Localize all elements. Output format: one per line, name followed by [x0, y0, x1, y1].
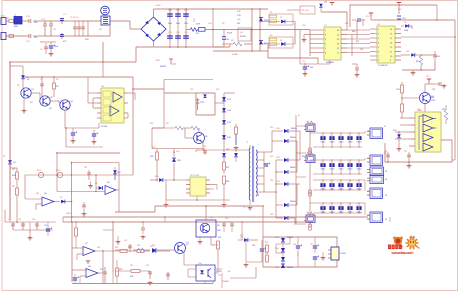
svg-text:C19: C19	[360, 49, 363, 51]
capacitor CO25	[358, 160, 360, 174]
fuse box F6	[306, 215, 315, 223]
connector J1	[1, 18, 6, 25]
capacitor C6	[78, 21, 80, 36]
capacitor C26	[387, 152, 389, 162]
svg-text:C34: C34	[32, 219, 35, 221]
wire	[300, 63, 330, 65]
capacitor CY2	[50, 21, 52, 24]
wire mid rail	[115, 249, 128, 251]
capacitor C11 bulk	[177, 9, 179, 47]
svg-text:JP1 POK: JP1 POK	[301, 10, 310, 12]
capacitor CO21	[322, 160, 324, 174]
capacitor C43	[149, 271, 151, 279]
power bar	[87, 261, 89, 264]
wire	[389, 217, 391, 222]
wire rail y77	[24, 76, 133, 78]
svg-text:D20: D20	[270, 127, 273, 129]
svg-text:1000u: 1000u	[330, 169, 335, 171]
resistor R16 R17	[175, 126, 183, 130]
capacitor CO15	[358, 133, 360, 147]
wire rail y200	[166, 199, 230, 201]
svg-text:R12: R12	[416, 61, 419, 63]
svg-text:R7: R7	[270, 12, 272, 14]
svg-text:VCC: VCC	[302, 25, 307, 27]
output row 3 rail	[313, 179, 365, 181]
svg-text:D4: D4	[95, 183, 97, 185]
choke L1	[14, 17, 22, 25]
capacitor C27	[408, 152, 410, 162]
wire	[401, 36, 455, 38]
wire	[213, 46, 224, 48]
svg-text:102: 102	[237, 23, 240, 25]
connector J2	[1, 33, 6, 40]
resistor R18	[235, 127, 238, 134]
svg-text:D3: D3	[60, 197, 62, 199]
wire	[210, 237, 212, 245]
svg-text:VCC: VCC	[366, 16, 371, 18]
diode D27	[152, 249, 156, 253]
svg-text:Q8: Q8	[240, 32, 243, 34]
diode D35	[281, 257, 285, 261]
svg-text:F3: F3	[302, 156, 304, 158]
svg-text:C43: C43	[146, 265, 149, 267]
connector JO3	[364, 180, 366, 191]
svg-text:104: 104	[310, 67, 313, 69]
diode D29B	[234, 153, 238, 157]
resistor R25	[116, 268, 119, 276]
diode D26	[284, 216, 288, 220]
op-amp U1 PWM IC	[324, 27, 341, 60]
transformer T1	[249, 148, 250, 200]
wire	[215, 272, 218, 274]
diode D23	[284, 170, 288, 174]
svg-text:C45: C45	[293, 244, 296, 246]
resistor R14	[401, 104, 404, 112]
svg-text:R29: R29	[218, 237, 221, 239]
svg-text:TL594: TL594	[101, 126, 108, 128]
capacitor C9 electrolytic	[49, 45, 53, 47]
wire blue stub	[235, 134, 237, 145]
resistor R28	[223, 176, 226, 184]
power +V2	[370, 13, 372, 16]
capacitor C18	[41, 83, 43, 88]
wire VCC loop	[350, 5, 437, 27]
capacitor CO34	[349, 180, 351, 190]
wire	[224, 92, 235, 94]
snubber box 2	[269, 37, 293, 48]
ground	[50, 52, 52, 54]
capacitor C16	[212, 9, 214, 47]
node vertical drop	[87, 21, 89, 36]
wire secondary taps	[256, 151, 264, 153]
bridge rectifier BR1	[141, 17, 166, 41]
wire	[4, 210, 6, 222]
transistor Q1	[21, 88, 31, 98]
power +V3	[428, 79, 430, 82]
svg-text:1000u: 1000u	[348, 142, 353, 144]
capacitor C33	[22, 222, 24, 230]
svg-text:T1: T1	[246, 142, 248, 144]
svg-text:J3: J3	[385, 195, 387, 197]
capacitor C21	[397, 15, 401, 17]
svg-text:1: 1	[258, 144, 259, 146]
svg-text:4148: 4148	[404, 30, 408, 32]
diode D36	[281, 264, 285, 268]
wire bottom HV rail	[154, 46, 231, 48]
resistor R27	[223, 162, 226, 170]
svg-text:R20: R20	[12, 175, 15, 177]
svg-text:R15: R15	[442, 109, 445, 111]
zener D12	[203, 94, 206, 97]
svg-text:+300V: +300V	[155, 5, 161, 7]
label box	[300, 6, 315, 14]
svg-text:R26: R26	[152, 147, 155, 149]
wire x119 vertical	[118, 163, 120, 213]
ground	[249, 206, 251, 208]
svg-text:D8: D8	[280, 40, 282, 42]
connector JO4	[364, 203, 366, 215]
op-amp U8	[86, 269, 98, 278]
capacitor C47	[314, 237, 316, 245]
svg-text:VCC: VCC	[398, 9, 403, 11]
svg-text:220u: 220u	[176, 23, 180, 25]
ground	[398, 147, 400, 149]
svg-text:R37: R37	[356, 41, 359, 43]
snubber box	[196, 93, 215, 115]
svg-text:C40: C40	[237, 19, 240, 21]
wire	[165, 180, 167, 200]
wire	[87, 77, 89, 103]
capacitor CX2	[28, 34, 30, 38]
resistor R15	[444, 110, 448, 120]
capacitor C31b	[83, 202, 85, 212]
ground	[72, 139, 74, 141]
svg-text:D9: D9	[404, 22, 406, 24]
op-amp U5	[42, 197, 54, 206]
wire	[183, 252, 185, 262]
ground	[245, 263, 247, 265]
capacitor CO42	[331, 203, 333, 213]
wire U1-U2 interconnect	[347, 29, 370, 31]
diode D2	[8, 160, 12, 164]
transistor Q5	[194, 133, 205, 144]
capacitor C4	[61, 33, 63, 39]
logo mascot 2 crown	[410, 236, 416, 239]
wire verticals	[296, 141, 298, 172]
wire trimmer row	[25, 174, 133, 176]
svg-text:C39: C39	[203, 146, 206, 148]
logo mascot 2 arm	[416, 246, 420, 249]
zener D28	[172, 158, 176, 162]
resistor R6 zigzag	[233, 42, 242, 46]
capacitor CO35	[358, 180, 360, 190]
diode D24	[284, 182, 288, 186]
ground	[356, 73, 358, 75]
diode D6	[259, 41, 263, 45]
capacitor CO31	[322, 180, 324, 190]
transistor Q2	[40, 96, 50, 106]
capacitor CO33	[340, 180, 342, 190]
resistor R21	[16, 188, 19, 195]
svg-text:PGND: PGND	[232, 54, 238, 56]
wire rail y148	[152, 148, 205, 150]
svg-text:C42: C42	[124, 240, 127, 242]
svg-text:C8: C8	[40, 49, 42, 51]
svg-text:C33: C33	[18, 219, 21, 221]
svg-text:J4: J4	[385, 219, 387, 221]
capacitor C38 top	[142, 222, 144, 228]
resistor R30	[138, 248, 145, 252]
ground	[303, 38, 305, 40]
svg-text:R30: R30	[137, 245, 140, 247]
diode D3	[61, 200, 65, 204]
svg-text:2mH: 2mH	[196, 24, 201, 26]
resistor R13	[401, 85, 404, 93]
svg-text:U9 TL431: U9 TL431	[190, 175, 200, 177]
logo mascot 2 sun	[406, 237, 419, 249]
svg-text:D26: D26	[270, 214, 273, 216]
wire	[45, 20, 62, 22]
wire output loop	[385, 140, 452, 162]
svg-text:R36: R36	[352, 31, 355, 33]
trimmer RV1	[38, 172, 43, 177]
capacitor C37	[104, 267, 106, 284]
op-amp U9 8-pin IC	[190, 177, 206, 196]
capacitor CX1	[28, 19, 30, 23]
capacitor C46	[297, 252, 299, 256]
svg-text:R31: R31	[130, 276, 133, 278]
zener D10	[411, 53, 415, 57]
svg-text:C945: C945	[431, 100, 435, 102]
connector JO5 double	[370, 167, 384, 175]
capacitor CO45	[358, 203, 360, 213]
svg-text:R27: R27	[226, 167, 229, 169]
capacitor C10 bulk	[169, 9, 171, 47]
capacitor C30	[264, 163, 268, 165]
diode D22	[284, 158, 288, 162]
wire	[195, 150, 197, 152]
svg-text:1000u: 1000u	[357, 142, 362, 144]
op-amp U2 IC	[377, 26, 395, 63]
wire	[130, 28, 141, 30]
svg-text:C32: C32	[8, 219, 11, 221]
wire	[40, 41, 56, 43]
ground	[142, 235, 144, 237]
wire y146	[65, 128, 67, 147]
ground	[199, 240, 201, 242]
component small	[164, 217, 166, 222]
wire block frame	[263, 237, 337, 267]
connector J7	[331, 247, 339, 260]
diode D4	[99, 186, 103, 190]
capacitor C48	[313, 256, 317, 258]
transistor Q7	[175, 243, 186, 254]
fuse box F2	[306, 124, 315, 132]
wire	[98, 272, 103, 274]
wire	[221, 273, 223, 288]
svg-text:RS507: RS507	[160, 66, 167, 68]
power bar small	[331, 3, 333, 6]
capacitor CO13	[340, 133, 342, 147]
fuse F1	[9, 20, 14, 23]
diode D7	[281, 20, 285, 24]
resistor R33	[266, 255, 269, 262]
wire	[229, 44, 231, 47]
capacitor CO22	[331, 160, 333, 174]
svg-text:R32: R32	[265, 242, 268, 244]
resistor R22	[75, 228, 78, 236]
svg-text:1000u: 1000u	[339, 169, 344, 171]
output row 2 rail	[310, 159, 365, 161]
svg-text:C47: C47	[310, 244, 313, 246]
capacitor CO12	[331, 133, 333, 147]
svg-text:R20: R20	[12, 169, 15, 171]
svg-text:R6: R6	[231, 40, 233, 42]
zener D40	[113, 170, 117, 174]
ground	[165, 203, 167, 205]
svg-text:R17: R17	[166, 123, 169, 125]
svg-text:C25: C25	[432, 89, 435, 91]
wire	[276, 243, 290, 245]
svg-text:R4: R4	[196, 33, 198, 35]
svg-text:C5 C6 C7: C5 C6 C7	[70, 17, 78, 19]
output row 4 rail	[310, 202, 365, 204]
diode D8	[281, 42, 285, 46]
svg-text:PC817: PC817	[216, 271, 223, 273]
svg-text:C37: C37	[100, 269, 103, 271]
svg-text:R5: R5	[222, 23, 224, 25]
transistor Q6 boxed	[196, 220, 216, 237]
svg-text:C16: C16	[208, 23, 211, 25]
wire	[294, 22, 296, 45]
svg-text:R2: R2	[56, 79, 58, 81]
connector JO1	[364, 131, 366, 133]
wire box	[421, 54, 435, 56]
wire primary	[249, 145, 251, 148]
ground	[412, 71, 414, 73]
ground	[83, 212, 85, 214]
snubber box 1	[269, 14, 293, 25]
wire	[128, 92, 135, 94]
svg-text:1000u: 1000u	[330, 142, 335, 144]
resistor R32	[266, 245, 269, 252]
resistor R31	[131, 270, 140, 273]
ground	[23, 109, 25, 111]
wire rail lower-left	[10, 61, 136, 63]
capacitor CO11	[322, 133, 324, 147]
wire	[205, 206, 207, 220]
capacitor C40	[223, 222, 225, 232]
wire	[210, 184, 217, 186]
transistor Q3	[60, 100, 70, 110]
wire aux to IC	[268, 51, 318, 64]
fuse box F4	[306, 155, 315, 163]
ground	[90, 184, 92, 186]
wire	[31, 92, 40, 94]
svg-text:D24: D24	[270, 180, 273, 182]
diode D34	[281, 248, 285, 252]
capacitor C5	[74, 21, 76, 36]
capacitor C35	[47, 222, 49, 228]
svg-text:R26: R26	[150, 156, 153, 158]
resistor R20	[16, 172, 19, 179]
capacitor C32	[12, 222, 14, 230]
svg-text:ZD2: ZD2	[393, 130, 396, 132]
ground	[408, 164, 410, 166]
logo text red blocks	[388, 245, 391, 250]
capacitor C45	[297, 237, 299, 245]
wire route y206	[115, 206, 263, 212]
svg-text:R33: R33	[265, 253, 268, 255]
wire aux verticals	[251, 9, 253, 51]
capacitor C19	[92, 133, 96, 135]
svg-text:D30: D30	[155, 176, 158, 178]
wire output feed verticals	[295, 115, 297, 224]
capacitor CO44	[349, 203, 351, 213]
svg-text:1000u: 1000u	[357, 169, 362, 171]
svg-text:U5: U5	[36, 193, 38, 195]
capacitor C22	[303, 66, 307, 68]
svg-text:SB360: SB360	[287, 267, 294, 269]
fuse F3	[308, 148, 311, 151]
svg-text:R28: R28	[226, 181, 229, 183]
wire	[264, 151, 272, 153]
svg-text:D13: D13	[216, 89, 219, 91]
capacitor C41	[231, 222, 233, 232]
ground	[149, 281, 151, 283]
wire	[22, 20, 29, 22]
wire long right	[374, 19, 455, 21]
resistor R2	[53, 83, 56, 89]
capacitor C44b	[167, 272, 169, 280]
wire rail y147	[66, 146, 103, 148]
ground	[235, 146, 237, 148]
svg-text:1000u: 1000u	[348, 169, 353, 171]
trimmer RV2	[57, 172, 62, 177]
capacitor C23	[356, 64, 358, 68]
svg-text:K2645: K2645	[240, 36, 245, 38]
svg-text:220u: 220u	[184, 23, 188, 25]
capacitor C29	[197, 98, 199, 110]
zener D9	[405, 24, 409, 28]
svg-text:D2: D2	[3, 156, 5, 158]
wire x71.5 feedback vertical	[71, 163, 73, 223]
diode D20	[284, 129, 288, 133]
svg-text:J1: J1	[384, 126, 386, 128]
wire	[181, 92, 196, 94]
power +V	[398, 3, 400, 6]
wire	[56, 152, 58, 175]
svg-text:R16: R16	[150, 123, 153, 125]
diode D5	[259, 18, 263, 22]
capacitor CO24	[349, 160, 351, 174]
svg-text:C22: C22	[302, 61, 305, 63]
capacitor C17	[223, 30, 225, 37]
wire	[103, 229, 113, 231]
capacitor C20	[352, 19, 356, 21]
wire	[75, 20, 101, 22]
capacitor C36	[73, 277, 77, 279]
svg-text:1000u: 1000u	[339, 142, 344, 144]
capacitor C8	[45, 43, 47, 54]
svg-text:D22: D22	[270, 156, 273, 158]
diode D33	[281, 238, 285, 242]
wire block right vertical	[112, 222, 114, 272]
svg-text:R21: R21	[12, 186, 15, 188]
svg-text:8: 8	[258, 195, 259, 197]
svg-text:ZD1: ZD1	[406, 51, 409, 53]
svg-text:SB560: SB560	[290, 201, 295, 203]
